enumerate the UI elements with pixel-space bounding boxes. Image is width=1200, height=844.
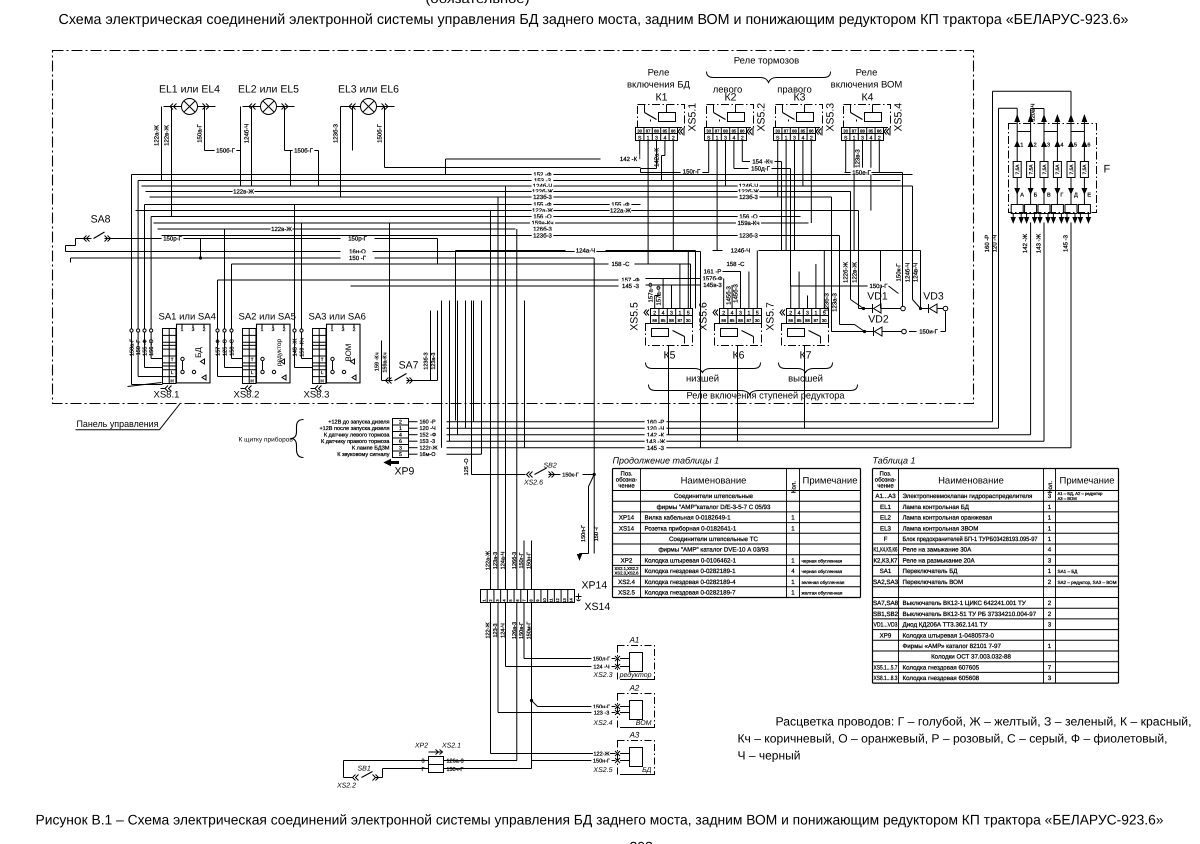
svg-text:К щитку приборов: К щитку приборов	[239, 437, 294, 444]
svg-text:VD3: VD3	[923, 291, 944, 303]
svg-text:150б-Г: 150б-Г	[216, 148, 235, 155]
svg-text:К7: К7	[800, 350, 812, 362]
svg-text:Примечание: Примечание	[1060, 476, 1115, 487]
svg-text:обозна-: обозна-	[875, 477, 896, 484]
svg-text:7: 7	[1048, 664, 1052, 671]
svg-text:XS2.4: XS2.4	[618, 579, 635, 586]
svg-text:Колодка штыревая 1-0480573-0: Колодка штыревая 1-0480573-0	[903, 632, 995, 639]
svg-text:К2,К3,К7: К2,К3,К7	[874, 557, 899, 564]
svg-text:124-Ч: 124-Ч	[501, 623, 507, 638]
svg-text:Поз.: Поз.	[621, 471, 633, 478]
svg-text:2: 2	[1048, 579, 1052, 586]
svg-text:Кол.: Кол.	[1047, 481, 1054, 494]
svg-text:150м-Г: 150м-Г	[527, 622, 533, 640]
svg-text:F: F	[1104, 164, 1111, 176]
svg-text:Реле: Реле	[856, 68, 878, 79]
svg-text:включения ВОМ: включения ВОМ	[831, 80, 903, 91]
svg-text:123б-3: 123б-3	[533, 233, 552, 240]
svg-text:4: 4	[731, 311, 734, 317]
svg-text:правого: правого	[777, 85, 811, 96]
svg-text:150и-Г: 150и-Г	[919, 329, 938, 336]
svg-text:EL3: EL3	[880, 525, 892, 532]
svg-text:XS8.3: XS8.3	[304, 390, 330, 401]
svg-text:Колодки ОСТ 37.003.032-88: Колодки ОСТ 37.003.032-88	[931, 654, 1011, 661]
svg-text:3: 3	[1048, 557, 1052, 564]
svg-text:123а-3: 123а-3	[832, 292, 839, 311]
svg-text:30: 30	[775, 129, 780, 134]
svg-text:редуктор: редуктор	[619, 671, 652, 679]
svg-text:SA1: SA1	[880, 568, 892, 575]
svg-text:159а-Кч: 159а-Кч	[383, 352, 389, 372]
svg-text:153 -3: 153 -3	[420, 439, 436, 445]
svg-text:143 -Ж: 143 -Ж	[1036, 233, 1043, 253]
svg-text:157а-Ф: 157а-Ф	[648, 282, 655, 302]
svg-text:Диод КД206А ТТ3.362.141 ТУ: Диод КД206А ТТ3.362.141 ТУ	[903, 622, 988, 629]
svg-text:В: В	[1047, 193, 1051, 199]
svg-text:150з-Г: 150з-Г	[869, 283, 888, 290]
svg-text:1: 1	[1048, 515, 1052, 522]
svg-text:Выключатель ВК12-51 ТУ РБ 3733: Выключатель ВК12-51 ТУ РБ 37334210.004-9…	[903, 611, 1037, 618]
svg-text:1: 1	[331, 327, 334, 333]
svg-text:Ч – черный: Ч – черный	[738, 749, 801, 763]
svg-text:XS5.5: XS5.5	[629, 302, 641, 331]
svg-text:87: 87	[814, 318, 819, 323]
svg-text:122а-Ж: 122а-Ж	[154, 125, 161, 146]
svg-text:150р-Г: 150р-Г	[163, 236, 182, 243]
svg-text:Рисунок В.1 – Схема электричес: Рисунок В.1 – Схема электрическая соедин…	[36, 812, 1164, 828]
svg-text:чение: чение	[877, 484, 894, 490]
svg-text:125 -О: 125 -О	[464, 458, 470, 476]
svg-text:85: 85	[732, 129, 737, 134]
svg-text:K1,К4,К5,К6: K1,К4,К5,К6	[874, 547, 898, 554]
svg-text:3: 3	[342, 327, 345, 333]
svg-text:Соединители штепсельные: Соединители штепсельные	[674, 493, 753, 500]
svg-text:4: 4	[798, 311, 801, 317]
svg-text:123б-3: 123б-3	[423, 353, 430, 370]
svg-text:XS2.5: XS2.5	[592, 767, 612, 774]
svg-text:150п-Г: 150п-Г	[581, 525, 587, 542]
svg-text:Д: Д	[1074, 193, 1078, 199]
svg-text:Примечание: Примечание	[803, 476, 858, 487]
svg-text:SB1: SB1	[358, 766, 371, 773]
svg-text:143 -Ж: 143 -Ж	[293, 339, 299, 357]
svg-text:EL1: EL1	[880, 504, 892, 511]
svg-text:30: 30	[822, 318, 827, 323]
svg-text:7,5А: 7,5А	[1082, 164, 1088, 175]
svg-text:123б-3: 123б-3	[739, 233, 758, 240]
svg-text:3: 3	[806, 311, 809, 317]
svg-text:124 -Ч: 124 -Ч	[593, 664, 610, 670]
svg-text:SA3 или SA6: SA3 или SA6	[309, 312, 366, 323]
svg-text:А1...А3: А1...А3	[875, 493, 896, 500]
svg-text:Вилка кабельная 0-0182649-1: Вилка кабельная 0-0182649-1	[645, 515, 732, 522]
svg-text:фирмы "АМР" каталог DVE-10 А 0: фирмы "АМР" каталог DVE-10 А 03/93	[658, 547, 769, 554]
svg-text:SA2 – редуктор, SA3 – ВОМ: SA2 – редуктор, SA3 – ВОМ	[1058, 580, 1117, 585]
svg-text:122а-Ж: 122а-Ж	[486, 551, 492, 570]
svg-text:160 -Р: 160 -Р	[420, 420, 437, 426]
svg-text:85: 85	[663, 129, 668, 134]
svg-text:обозна-: обозна-	[616, 477, 637, 484]
svg-text:SA2 или SA5: SA2 или SA5	[239, 312, 296, 323]
svg-text:2: 2	[653, 311, 656, 317]
svg-text:Соединители штепсельные ТС: Соединители штепсельные ТС	[669, 536, 758, 543]
svg-text:1: 1	[791, 515, 795, 522]
svg-text:123а-3: 123а-3	[431, 353, 437, 370]
svg-text:86: 86	[809, 129, 814, 134]
svg-text:123в-3: 123в-3	[855, 149, 862, 168]
svg-text:123 -3: 123 -3	[594, 710, 610, 716]
svg-text:1: 1	[791, 557, 795, 564]
svg-text:К звуковому сигналу: К звуковому сигналу	[337, 452, 390, 458]
svg-text:Колодка гнездовая 607605: Колодка гнездовая 607605	[903, 664, 980, 671]
svg-text:Т: Т	[171, 357, 174, 362]
svg-text:88: 88	[723, 129, 728, 134]
svg-text:К1: К1	[656, 92, 668, 104]
svg-text:Т: Т	[251, 357, 254, 362]
svg-text:88: 88	[860, 129, 865, 134]
svg-text:Схема электрическая соединений: Схема электрическая соединений электронн…	[59, 12, 1129, 28]
svg-text:122в-Ж: 122в-Ж	[164, 125, 171, 146]
svg-text:124б-Ч: 124б-Ч	[905, 263, 912, 282]
svg-text:Колодка гнездовая 0-0282189-1: Колодка гнездовая 0-0282189-1	[645, 568, 737, 575]
svg-text:3: 3	[1047, 143, 1050, 149]
svg-text:К4: К4	[862, 92, 874, 104]
svg-text:158 -С: 158 -С	[230, 339, 236, 356]
svg-text:5: 5	[756, 311, 759, 317]
svg-text:86: 86	[740, 129, 745, 134]
svg-text:2: 2	[1048, 600, 1052, 607]
svg-text:EL2 или EL5: EL2 или EL5	[238, 84, 299, 96]
svg-text:включения БД: включения БД	[627, 80, 691, 91]
svg-text:1: 1	[1048, 568, 1052, 575]
svg-text:2: 2	[1048, 611, 1052, 618]
svg-text:85: 85	[869, 129, 874, 134]
svg-text:30: 30	[755, 318, 760, 323]
svg-text:Розетка приборная 0-0182641-1: Розетка приборная 0-0182641-1	[645, 525, 737, 532]
svg-text:142 -К: 142 -К	[620, 156, 638, 163]
svg-text:150в-Г: 150в-Г	[519, 622, 525, 639]
svg-text:145 -3: 145 -3	[647, 445, 665, 452]
svg-text:Таблица 1: Таблица 1	[873, 456, 916, 466]
svg-text:Наименование: Наименование	[681, 476, 747, 487]
svg-text:155 -Ф: 155 -Ф	[143, 339, 149, 356]
svg-text:XS2.4: XS2.4	[592, 720, 612, 727]
svg-text:5: 5	[1074, 143, 1077, 149]
svg-text:124а-Ч: 124а-Ч	[576, 248, 595, 255]
svg-text:86: 86	[721, 318, 726, 323]
svg-text:122б-Ж: 122б-Ж	[843, 262, 850, 283]
svg-text:К6: К6	[733, 350, 745, 362]
svg-text:125 -О: 125 -О	[223, 338, 229, 356]
svg-text:А2: А2	[629, 684, 640, 693]
svg-text:122в-Ж: 122в-Ж	[233, 189, 254, 196]
svg-text:F: F	[884, 536, 888, 543]
svg-text:К датчику левого тормоза: К датчику левого тормоза	[324, 433, 391, 439]
svg-text:150к-Г: 150к-Г	[562, 472, 578, 478]
svg-text:+12В до запуска дизеля: +12В до запуска дизеля	[328, 420, 389, 426]
svg-text:XS8.1...8.3: XS8.1...8.3	[874, 675, 898, 682]
svg-text:Кол.: Кол.	[791, 481, 798, 494]
svg-text:чение: чение	[618, 484, 635, 490]
svg-text:3: 3	[1048, 493, 1052, 500]
svg-text:13: 13	[562, 598, 567, 603]
svg-text:87: 87	[852, 129, 857, 134]
svg-text:XS5.4: XS5.4	[893, 103, 905, 132]
svg-text:1: 1	[1048, 643, 1052, 650]
svg-text:Расцветка проводов: Г – голубо: Расцветка проводов: Г – голубой, Ж – жел…	[776, 715, 1192, 729]
svg-text:7,5А: 7,5А	[1028, 164, 1034, 175]
svg-text:1: 1	[181, 327, 184, 333]
svg-text:EL1 или EL4: EL1 или EL4	[159, 84, 220, 96]
svg-text:30: 30	[637, 129, 642, 134]
svg-text:4: 4	[662, 311, 665, 317]
svg-text:SA7: SA7	[399, 360, 419, 372]
svg-text:SA7,SA8: SA7,SA8	[873, 600, 899, 607]
svg-text:SB1,SB2: SB1,SB2	[873, 611, 899, 618]
svg-text:4: 4	[1060, 143, 1063, 149]
svg-text:122а-Ж: 122а-Ж	[610, 208, 631, 215]
svg-text:2: 2	[353, 327, 356, 333]
svg-text:XS2.5: XS2.5	[618, 590, 635, 597]
svg-text:85: 85	[801, 129, 806, 134]
svg-text:123а-3: 123а-3	[493, 552, 499, 569]
svg-text:(обязательное): (обязательное)	[426, 0, 530, 6]
svg-text:А3 – ВОМ: А3 – ВОМ	[1058, 496, 1078, 501]
svg-text:2: 2	[722, 311, 725, 317]
svg-text:Колодка штыревая 0-0106462-1: Колодка штыревая 0-0106462-1	[645, 557, 737, 564]
svg-text:10: 10	[542, 598, 547, 603]
svg-text:SA8: SA8	[91, 214, 111, 226]
svg-text:1: 1	[678, 311, 681, 317]
svg-text:Фирмы «АМР» каталог 82101 7-97: Фирмы «АМР» каталог 82101 7-97	[903, 643, 1002, 650]
svg-text:XS14: XS14	[585, 601, 611, 613]
svg-text:3: 3	[1048, 675, 1052, 682]
svg-text:Н: Н	[171, 379, 174, 384]
svg-text:XS8.2: XS8.2	[234, 390, 260, 401]
svg-text:150к-Г: 150к-Г	[896, 263, 903, 282]
svg-text:120а-Ч: 120а-Ч	[1031, 103, 1037, 121]
svg-text:124в-Ч: 124в-Ч	[913, 263, 920, 282]
svg-text:150н-Г: 150н-Г	[527, 552, 533, 569]
svg-text:XS2.2: XS2.2	[336, 783, 356, 790]
svg-text:87: 87	[715, 129, 720, 134]
svg-text:88: 88	[792, 129, 797, 134]
svg-text:Переключатель ВОМ: Переключатель ВОМ	[903, 579, 964, 586]
svg-text:1: 1	[261, 327, 264, 333]
svg-text:Н: Н	[251, 379, 254, 384]
svg-text:Электропневмоклапан гидрораспр: Электропневмоклапан гидрораспределителя	[903, 493, 1033, 500]
svg-text:159а-Кч: 159а-Кч	[738, 220, 760, 227]
svg-text:6: 6	[1087, 143, 1090, 149]
svg-text:XS2.3: XS2.3	[592, 672, 612, 679]
svg-text:150е-Г: 150е-Г	[852, 170, 871, 177]
svg-text:XS2.3,XS2.6: XS2.3,XS2.6	[615, 571, 640, 576]
svg-text:ХР2: ХР2	[414, 743, 428, 750]
svg-text:124б-Ч: 124б-Ч	[244, 124, 251, 143]
svg-text:145б-3: 145б-3	[726, 285, 733, 304]
svg-text:Реле на замыкание 30А: Реле на замыкание 30А	[903, 547, 973, 554]
svg-text:2: 2	[203, 327, 206, 333]
svg-text:145 -3: 145 -3	[622, 283, 640, 290]
svg-text:зеленая обугленная: зеленая обугленная	[802, 580, 845, 585]
svg-text:142а-К: 142а-К	[654, 148, 661, 167]
svg-text:126а-3: 126а-3	[447, 759, 464, 765]
svg-text:XS5.1...5.7: XS5.1...5.7	[874, 664, 898, 671]
svg-text:150р-Г: 150р-Г	[348, 236, 367, 243]
svg-text:К датчику правого тормоза: К датчику правого тормоза	[321, 439, 390, 445]
svg-text:2: 2	[789, 311, 792, 317]
svg-text:150а-Г: 150а-Г	[197, 123, 204, 142]
svg-text:122в-Ж: 122в-Ж	[852, 262, 859, 283]
svg-text:87: 87	[747, 318, 752, 323]
svg-text:Н: Н	[321, 379, 324, 384]
svg-text:122-Ж: 122-Ж	[486, 622, 492, 638]
svg-text:150л-Г: 150л-Г	[593, 656, 610, 662]
svg-text:157 -Ф: 157 -Ф	[216, 339, 222, 356]
svg-text:черная обугленная: черная обугленная	[802, 558, 843, 563]
svg-text:142 -Ж: 142 -Ж	[1022, 233, 1029, 253]
svg-text:86: 86	[788, 318, 793, 323]
svg-text:Лампа контрольная ЗВОМ: Лампа контрольная ЗВОМ	[903, 525, 979, 532]
svg-text:VD1...VD3: VD1...VD3	[874, 622, 898, 629]
svg-text:XS5.2: XS5.2	[756, 103, 768, 132]
svg-text:85: 85	[797, 318, 802, 323]
svg-text:А3: А3	[629, 731, 640, 740]
svg-text:1: 1	[1048, 504, 1052, 511]
svg-text:XS2.6: XS2.6	[523, 480, 543, 487]
svg-text:желтая обугленная: желтая обугленная	[802, 591, 843, 596]
svg-text:85: 85	[730, 318, 735, 323]
svg-text:1: 1	[1048, 536, 1052, 543]
svg-text:150г-Г: 150г-Г	[519, 552, 525, 568]
svg-text:EL3 или EL6: EL3 или EL6	[338, 84, 399, 96]
svg-text:VD2: VD2	[868, 314, 889, 326]
svg-text:Б: Б	[1034, 193, 1038, 199]
svg-text:Колодка гнездовая 0-0282189-4: Колодка гнездовая 0-0282189-4	[645, 579, 737, 586]
svg-text:150н-Г: 150н-Г	[593, 758, 610, 764]
svg-text:Реле на размыкание 20А: Реле на размыкание 20А	[903, 557, 976, 564]
svg-text:XS8.1: XS8.1	[154, 390, 180, 401]
svg-text:XS5.6: XS5.6	[698, 302, 710, 331]
svg-text:1: 1	[747, 311, 750, 317]
svg-text:30: 30	[686, 318, 691, 323]
svg-text:160 -Р: 160 -Р	[984, 235, 991, 253]
svg-text:1: 1	[791, 590, 795, 597]
svg-text:+12В после запуска дизеля: +12В после запуска дизеля	[319, 426, 389, 432]
svg-text:К5: К5	[664, 350, 676, 362]
svg-text:SA1 или SA4: SA1 или SA4	[159, 312, 216, 323]
svg-text:150ч-Г: 150ч-Г	[447, 767, 464, 773]
svg-text:А1: А1	[629, 636, 640, 645]
svg-text:126б-3: 126б-3	[511, 552, 518, 569]
svg-text:7,5А: 7,5А	[1015, 164, 1021, 175]
svg-text:фирмы "АМР"каталог D/E-3-5-7 С: фирмы "АМР"каталог D/E-3-5-7 С 05/93	[657, 504, 771, 511]
svg-text:150д-Г: 150д-Г	[751, 166, 771, 173]
svg-text:ХР14: ХР14	[619, 515, 635, 522]
svg-text:145в-3: 145в-3	[703, 282, 722, 289]
svg-text:88: 88	[669, 318, 674, 323]
svg-text:Поз.: Поз.	[880, 471, 892, 478]
svg-text:SA1 – БД: SA1 – БД	[1058, 569, 1079, 574]
svg-text:Т: Т	[321, 357, 324, 362]
svg-text:145 -3: 145 -3	[1063, 234, 1070, 252]
svg-text:150 -Г: 150 -Г	[349, 255, 367, 262]
svg-text:SA2,SA3: SA2,SA3	[873, 579, 899, 586]
svg-text:ВОМ: ВОМ	[636, 720, 652, 727]
svg-text:124б-Ч: 124б-Ч	[731, 248, 750, 255]
svg-text:Лампа контрольная БД: Лампа контрольная БД	[903, 504, 970, 511]
svg-text:А: А	[1020, 193, 1024, 199]
svg-text:158 -С: 158 -С	[726, 261, 745, 268]
svg-text:XS5.7: XS5.7	[765, 302, 777, 331]
svg-text:3: 3	[739, 311, 742, 317]
svg-text:ХР9: ХР9	[395, 466, 415, 478]
svg-text:3: 3	[192, 327, 195, 333]
svg-text:150г-Г: 150г-Г	[683, 169, 701, 176]
svg-text:150 -Г: 150 -Г	[136, 340, 142, 356]
svg-text:123б-3: 123б-3	[739, 194, 758, 201]
svg-text:14: 14	[569, 598, 574, 603]
svg-text:XS5.1: XS5.1	[687, 103, 699, 132]
svg-text:Выключатель ВК12-1 ЦИКС 642241: Выключатель ВК12-1 ЦИКС 642241.001 ТУ	[903, 600, 1026, 607]
svg-text:XS5.3: XS5.3	[825, 103, 837, 132]
svg-text:1: 1	[791, 579, 795, 586]
svg-text:3: 3	[670, 311, 673, 317]
svg-text:30: 30	[706, 129, 711, 134]
svg-text:БД: БД	[194, 347, 203, 358]
svg-text:4: 4	[1048, 547, 1052, 554]
svg-text:86: 86	[877, 129, 882, 134]
svg-text:Наименование: Наименование	[938, 476, 1004, 487]
svg-text:87: 87	[678, 318, 683, 323]
svg-text:БД: БД	[642, 767, 651, 774]
svg-text:88: 88	[805, 318, 810, 323]
svg-text:122г-Ж: 122г-Ж	[420, 446, 438, 452]
svg-text:Г: Г	[422, 767, 425, 773]
svg-text:150а-Г: 150а-Г	[130, 339, 136, 356]
svg-text:7,5А: 7,5А	[1055, 164, 1061, 175]
svg-text:122в-Ж: 122в-Ж	[271, 226, 292, 233]
svg-text:2: 2	[283, 327, 286, 333]
svg-text:120 -Ч: 120 -Ч	[992, 235, 999, 253]
svg-text:3: 3	[421, 759, 424, 765]
svg-text:7,5А: 7,5А	[1069, 164, 1075, 175]
svg-text:ВОМ: ВОМ	[344, 343, 353, 361]
svg-text:124а-Ч: 124а-Ч	[501, 551, 507, 569]
svg-text:низшей: низшей	[686, 374, 719, 385]
svg-text:левого: левого	[713, 85, 743, 96]
svg-text:152 -Ф: 152 -Ф	[420, 433, 437, 439]
svg-text:Панель управления: Панель управления	[77, 419, 159, 430]
svg-text:126а-3: 126а-3	[512, 622, 518, 639]
svg-text:159 -Кч: 159 -Кч	[375, 352, 381, 371]
svg-text:3: 3	[1048, 622, 1052, 629]
svg-text:2: 2	[1034, 143, 1037, 149]
svg-text:88: 88	[738, 318, 743, 323]
svg-text:154 -Кч: 154 -Кч	[752, 159, 772, 166]
svg-text:159 -Кч: 159 -Кч	[300, 338, 306, 357]
svg-text:Реле включения ступеней редукт: Реле включения ступеней редуктора	[687, 391, 846, 402]
svg-text:XS2.1: XS2.1	[441, 743, 461, 750]
svg-text:4: 4	[791, 568, 795, 575]
svg-text:ХР14: ХР14	[582, 580, 608, 592]
svg-text:Продолжение таблицы 1: Продолжение таблицы 1	[613, 456, 720, 466]
svg-text:Г: Г	[1060, 193, 1063, 199]
svg-text:1: 1	[814, 311, 817, 317]
svg-text:К лампе БДЗМ: К лампе БДЗМ	[352, 446, 390, 452]
svg-text:145б-3: 145б-3	[733, 283, 740, 302]
svg-text:150б-Г: 150б-Г	[377, 123, 384, 142]
